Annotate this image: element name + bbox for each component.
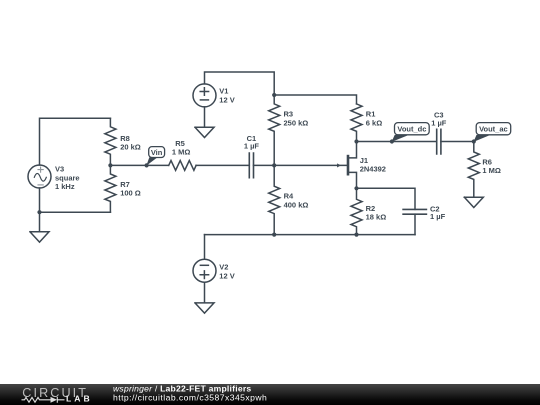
- wire C3 to R6: [441, 141, 474, 143]
- svg-text:R4: R4: [284, 192, 294, 201]
- node bottom rail R4: [272, 233, 276, 237]
- node Vin tap: [145, 163, 149, 167]
- svg-text:400 kΩ: 400 kΩ: [284, 201, 309, 210]
- svg-text:1 MΩ: 1 MΩ: [172, 148, 191, 157]
- svg-text:12 V: 12 V: [219, 272, 234, 281]
- resistor R1: [351, 104, 382, 142]
- resistor R2: [351, 188, 386, 234]
- node gate/divider junction: [272, 163, 276, 167]
- capacitor C2: [403, 204, 445, 234]
- ground under R6: [464, 197, 483, 207]
- svg-text:1 kHz: 1 kHz: [55, 182, 75, 191]
- voltage source V2: [193, 259, 235, 282]
- transistor J1 (N-JFET 2N4392): [337, 142, 386, 189]
- wire node A to R5: [110, 164, 168, 166]
- resistor R3: [269, 95, 309, 165]
- svg-text:Vin: Vin: [151, 148, 163, 157]
- svg-text:V3: V3: [55, 164, 64, 173]
- svg-text:1 µF: 1 µF: [430, 212, 446, 221]
- node Vout_dc tap: [390, 139, 394, 143]
- ground under V3: [30, 212, 49, 242]
- node V3 ground junction: [37, 210, 41, 214]
- svg-text:R3: R3: [284, 110, 294, 119]
- svg-text:1 MΩ: 1 MΩ: [482, 166, 501, 175]
- svg-text:R1: R1: [366, 110, 376, 119]
- resistor R8: [105, 118, 141, 165]
- svg-text:Vout_ac: Vout_ac: [479, 125, 508, 134]
- logo resistor-diode squiggle: [22, 397, 65, 403]
- node bottom rail R2: [354, 233, 358, 237]
- wire V3 bottom rail: [40, 188, 111, 212]
- wire top rail to R1: [274, 95, 356, 104]
- svg-text:1 µF: 1 µF: [244, 142, 260, 151]
- ground under V1: [195, 107, 214, 138]
- resistor R5: [169, 139, 196, 171]
- wire V1 top to rail: [205, 72, 275, 95]
- svg-text:100 Ω: 100 Ω: [120, 189, 141, 198]
- capacitor C1: [244, 134, 260, 178]
- svg-text:V1: V1: [219, 86, 228, 95]
- flag Vout_ac: [474, 123, 511, 142]
- resistor R6: [468, 142, 501, 198]
- voltage source V1: [193, 84, 235, 107]
- wire source rail to C2: [357, 188, 416, 209]
- node source: [354, 186, 358, 190]
- svg-text:12 V: 12 V: [219, 96, 234, 105]
- resistor R4: [269, 165, 309, 234]
- node A divider junction: [108, 163, 112, 167]
- resistor R7: [105, 165, 141, 212]
- svg-text:18 kΩ: 18 kΩ: [366, 213, 387, 222]
- svg-text:LAB: LAB: [66, 394, 93, 404]
- svg-text:250 kΩ: 250 kΩ: [284, 119, 309, 128]
- wire bottom rail: [205, 234, 416, 236]
- svg-text:R5: R5: [175, 139, 185, 148]
- capacitor C3: [431, 110, 447, 153]
- flag Vin: [146, 147, 164, 166]
- svg-text:2N4392: 2N4392: [360, 165, 386, 174]
- node drain: [354, 139, 358, 143]
- svg-text:J1: J1: [360, 156, 368, 165]
- wire drain rail to C3: [357, 141, 437, 143]
- svg-text:1 µF: 1 µF: [431, 119, 447, 128]
- svg-text:Vout_dc: Vout_dc: [397, 125, 426, 134]
- footer bar: [0, 384, 540, 405]
- wire R5 to C1: [196, 164, 249, 166]
- ground under V2: [195, 282, 214, 313]
- voltage source V3: [28, 164, 80, 191]
- wire V2 top to bottom rail: [204, 235, 206, 260]
- wire C1 to J1 gate: [254, 164, 347, 166]
- flag Vout_dc: [392, 123, 430, 142]
- svg-text:6 kΩ: 6 kΩ: [366, 119, 382, 128]
- node Vout_ac tap: [472, 139, 476, 143]
- svg-text:http://circuitlab.com/c3587x34: http://circuitlab.com/c3587x345xpwh: [113, 392, 267, 402]
- svg-text:V2: V2: [219, 262, 228, 271]
- node top rail junction: [272, 93, 276, 97]
- wire V3 top to R8 top: [40, 118, 111, 165]
- svg-text:20 kΩ: 20 kΩ: [120, 142, 141, 151]
